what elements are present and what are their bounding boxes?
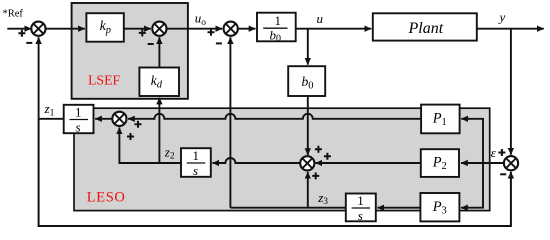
svg-text:*Ref: *Ref (3, 8, 24, 19)
summer S1 circle (31, 22, 45, 36)
sign - of S1 (26, 42, 32, 44)
svg-text:u: u (317, 11, 324, 26)
sign - of S3 (216, 42, 222, 44)
wire b0 down to summer S5 (307, 96, 309, 155)
sign + right of S4 (135, 121, 142, 128)
block P2 (421, 149, 459, 177)
wire z3 branch up to S5 (307, 172, 309, 208)
wire S4 to integrator 1/s z1 (95, 118, 112, 120)
resistor-block kp (86, 13, 123, 42)
sign + of S6 (498, 149, 505, 156)
block P1 (421, 105, 460, 134)
svg-text:LESO: LESO (87, 190, 126, 206)
wire P3 output to integrator 1/s z3 (377, 207, 420, 209)
LESO gray box (74, 108, 490, 210)
summer S6 epsilon circle (504, 156, 518, 170)
block kd (139, 68, 179, 97)
svg-text:LSEF: LSEF (88, 73, 121, 88)
wire u branch down into b0 (307, 29, 309, 65)
wire P2 output to S5 (315, 162, 420, 164)
wire z3 output left along bottom row (230, 207, 345, 209)
block P3 (420, 193, 459, 221)
svg-text:s: s (76, 120, 81, 135)
wire z2 branch up to kd (158, 98, 160, 163)
wire kp to summer S2 (124, 28, 151, 30)
wire S5 output to integrator 1/s z2 with hop (212, 158, 299, 163)
svg-text:s: s (358, 208, 363, 223)
svg-text:ε: ε (491, 145, 497, 160)
sign - of S6 (500, 173, 506, 175)
block b0 (288, 66, 325, 96)
sign + of S1 (18, 30, 25, 37)
wire 1/b0 to Plant (296, 28, 372, 30)
block 1/b0 (257, 13, 296, 42)
sign + bottom of S5 (312, 172, 319, 179)
summer S3 circle (224, 22, 238, 36)
wire S6 output to distribution node (461, 162, 504, 164)
summer S2 circle (152, 22, 166, 36)
wire z1 vertical down + bottom feedback to S6 (39, 119, 511, 226)
LSEF gray box (72, 3, 188, 99)
wire S1 to kp (46, 28, 85, 30)
wire Plant to output y (477, 28, 544, 30)
wire kd up to S2 (158, 37, 160, 67)
integrator block 1/s (z1) (64, 105, 94, 133)
svg-text:1: 1 (275, 13, 282, 28)
wire z2 output left then up to S4 (119, 127, 181, 163)
sign + top of S5 (315, 146, 322, 153)
integrator block 1/s (z3) (346, 194, 376, 222)
wire z3 up to S3 (229, 37, 231, 208)
svg-text:1: 1 (357, 193, 364, 208)
wire S3 to 1/b0 (238, 28, 256, 30)
sign + of S2 (139, 29, 146, 36)
block Plant (373, 13, 477, 40)
sign - of S2 (148, 43, 154, 45)
svg-text:1: 1 (193, 148, 200, 163)
wire *Ref input into summer S1 (7, 28, 31, 30)
sign + of S3 (208, 29, 215, 36)
wire 1/s z1 output to left vertical (39, 118, 64, 120)
wire P1 output to summer S4 with hops (128, 114, 421, 119)
sign + right of S5 (324, 153, 331, 160)
integrator block 1/s (z2) (181, 148, 211, 177)
wire y branch down into epsilon summer S6 (510, 29, 512, 155)
summer S5 circle (300, 156, 314, 170)
summer S4 circle (112, 112, 126, 126)
svg-text:1: 1 (75, 105, 82, 120)
svg-text:y: y (498, 10, 506, 25)
svg-text:s: s (193, 163, 198, 178)
wire z1 vertical up to S1 (38, 37, 40, 119)
svg-text:Plant: Plant (408, 20, 444, 37)
sign + bottom of S4 (127, 133, 134, 140)
wire S2 to summer S3 (166, 28, 222, 30)
wire epsilon distribution vertical (461, 119, 483, 163)
